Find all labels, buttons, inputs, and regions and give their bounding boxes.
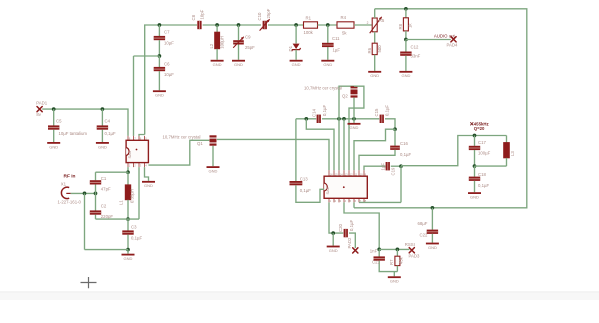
svg-text:R1: R1	[306, 15, 312, 20]
svg-text:C20: C20	[338, 224, 343, 232]
svg-text:68µF: 68µF	[418, 221, 428, 226]
svg-text:C2: C2	[101, 204, 107, 209]
svg-text:100µF: 100µF	[478, 151, 491, 156]
svg-text:100µH: 100µH	[220, 36, 225, 49]
svg-text:25pF: 25pF	[266, 8, 271, 18]
svg-text:10µF tantalium: 10µF tantalium	[59, 131, 88, 136]
svg-text:Q2: Q2	[342, 93, 348, 98]
svg-text:L3: L3	[510, 151, 515, 156]
svg-text:C14: C14	[311, 109, 316, 117]
svg-text:C7: C7	[164, 30, 170, 35]
svg-text:10: 10	[360, 173, 363, 177]
svg-text:GND: GND	[350, 125, 359, 130]
svg-text:C3: C3	[131, 225, 137, 230]
svg-text:C17: C17	[478, 140, 486, 145]
svg-text:45k: 45k	[398, 256, 403, 264]
svg-text:25pF: 25pF	[245, 45, 255, 50]
svg-text:C8: C8	[191, 14, 196, 20]
svg-text:GND: GND	[390, 279, 399, 284]
svg-text:0,1µF: 0,1µF	[131, 236, 142, 241]
svg-text:GND: GND	[213, 62, 222, 67]
svg-text:10pF: 10pF	[200, 9, 205, 19]
svg-text:10,7MHz cer crystal: 10,7MHz cer crystal	[163, 134, 201, 139]
svg-text:X1: X1	[61, 181, 67, 186]
svg-text:AUDIO out: AUDIO out	[434, 33, 456, 38]
svg-text:L2: L2	[209, 43, 214, 48]
svg-text:C10: C10	[257, 12, 262, 20]
svg-text:GND: GND	[144, 183, 153, 188]
svg-text:11: 11	[355, 173, 358, 177]
svg-text:R6: R6	[367, 47, 372, 53]
svg-text:C5: C5	[56, 119, 62, 124]
svg-text:1nF: 1nF	[370, 248, 378, 253]
svg-text:0,1µF: 0,1µF	[300, 188, 311, 193]
svg-text:GND: GND	[428, 245, 437, 250]
svg-text:GND: GND	[124, 256, 133, 261]
svg-text:R7: R7	[389, 259, 394, 265]
svg-text:0,1µF: 0,1µF	[478, 183, 489, 188]
svg-text:C1: C1	[101, 176, 107, 181]
svg-text:Q1: Q1	[197, 141, 203, 146]
svg-text:R5: R5	[379, 18, 385, 23]
svg-text:C11: C11	[332, 36, 340, 41]
svg-text:C22: C22	[420, 233, 428, 238]
svg-text:500: 500	[377, 45, 382, 53]
svg-text:RF in: RF in	[64, 173, 76, 179]
svg-text:C19: C19	[390, 167, 395, 175]
svg-text:220pF: 220pF	[101, 214, 114, 219]
svg-text:1-227-161-0: 1-227-161-0	[58, 200, 82, 205]
svg-text:GND: GND	[323, 62, 332, 67]
svg-text:47pF: 47pF	[101, 186, 111, 191]
svg-text:0,1µF: 0,1µF	[105, 131, 116, 136]
svg-text:13: 13	[345, 173, 348, 177]
svg-text:C15: C15	[374, 108, 379, 116]
svg-text:PAD3: PAD3	[409, 253, 421, 258]
svg-text:C21: C21	[372, 259, 380, 264]
svg-text:1µF: 1µF	[333, 48, 341, 53]
svg-text:GND: GND	[155, 93, 164, 98]
svg-text:C9: C9	[245, 35, 251, 40]
svg-text:C18: C18	[478, 172, 486, 177]
svg-text:0.35µH: 0.35µH	[130, 189, 135, 203]
svg-text:0,1µF: 0,1µF	[385, 105, 390, 116]
svg-text:PAD2: PAD2	[347, 237, 352, 249]
svg-text:GND: GND	[209, 169, 218, 174]
svg-text:10µF: 10µF	[164, 72, 174, 77]
svg-text:C4: C4	[105, 119, 111, 124]
svg-text:GND: GND	[49, 144, 58, 149]
svg-text:16: 16	[330, 173, 333, 177]
svg-text:Q=20: Q=20	[474, 126, 485, 131]
svg-text:PAD1: PAD1	[36, 100, 48, 105]
svg-text:RSSI: RSSI	[405, 242, 415, 247]
svg-text:100k: 100k	[304, 30, 314, 35]
svg-text:R4: R4	[341, 15, 347, 20]
svg-text:C16: C16	[400, 141, 408, 146]
svg-text:GND: GND	[470, 195, 479, 200]
svg-text:GND: GND	[370, 73, 379, 78]
svg-text:L1: L1	[119, 200, 124, 205]
svg-text:SA1: SA1	[127, 150, 132, 158]
svg-text:0,1µF: 0,1µF	[322, 105, 327, 116]
svg-text:SA2: SA2	[325, 186, 330, 194]
svg-text:12: 12	[350, 173, 353, 177]
svg-text:15: 15	[335, 173, 338, 177]
svg-text:C12: C12	[411, 44, 419, 49]
svg-text:R8: R8	[398, 23, 403, 29]
svg-text:PAD4: PAD4	[447, 42, 459, 47]
svg-text:GND: GND	[401, 73, 410, 78]
svg-text:GND: GND	[292, 62, 301, 67]
svg-text:1µF: 1µF	[380, 163, 385, 171]
svg-text:C13: C13	[300, 176, 308, 181]
svg-text:10µF: 10µF	[164, 41, 174, 46]
svg-text:0,1µF: 0,1µF	[349, 220, 354, 231]
svg-text:GND: GND	[234, 62, 243, 67]
svg-text:2: 2	[367, 21, 369, 25]
svg-text:GND: GND	[98, 144, 107, 149]
svg-text:0,1µF: 0,1µF	[400, 152, 411, 157]
svg-text:GND: GND	[329, 248, 338, 253]
svg-text:14: 14	[340, 173, 343, 177]
svg-text:33nF: 33nF	[411, 54, 421, 59]
svg-text:C6: C6	[164, 62, 170, 67]
svg-text:D1: D1	[288, 45, 293, 51]
svg-text:10,7MHz cer crystal: 10,7MHz cer crystal	[304, 85, 342, 90]
